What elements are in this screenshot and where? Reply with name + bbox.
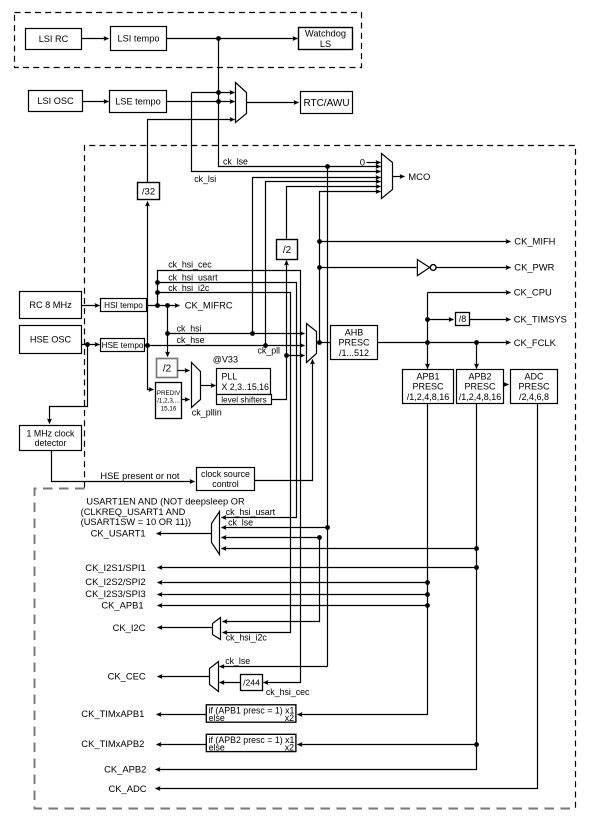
dashed frame: lower peripheral clock group (gray part) [35, 489, 576, 809]
svg-text:CK_TIMSYS: CK_TIMSYS [514, 313, 567, 324]
wire ADC down trunk [156, 404, 538, 789]
wire RC to HSI tempo [82, 305, 100, 307]
wire APB2 down trunk [156, 404, 477, 770]
svg-text:HSE OSC: HSE OSC [30, 335, 72, 345]
svg-text:/2: /2 [283, 245, 292, 256]
wire CK_MIFH [320, 241, 511, 243]
wire buffer to CK_PWR [437, 267, 511, 269]
svg-text:(CLKREQ_USART1 AND: (CLKREQ_USART1 AND [81, 507, 186, 517]
dashed frame: LSI watchdog group [15, 13, 362, 68]
block LSI tempo [111, 27, 167, 51]
junction hclk to /8 [425, 317, 430, 322]
svg-text:LSI RC: LSI RC [39, 34, 69, 44]
wire RTC mux input 1 (ck_lsi) [192, 92, 235, 94]
block RTC/AWU [301, 92, 353, 114]
svg-text:ck_hsi_usart: ck_hsi_usart [168, 273, 218, 283]
svg-text:RTC/AWU: RTC/AWU [303, 98, 349, 109]
mux system clock select [307, 324, 317, 363]
wire ck_lse to CEC mux [220, 666, 328, 668]
block LSI OSC [29, 91, 83, 112]
wire AHB out to CK_FCLK [378, 342, 511, 344]
svg-text:CK_CPU: CK_CPU [514, 287, 552, 298]
wire LSE tempo to RTC mux [167, 101, 235, 103]
svg-text:control: control [212, 479, 238, 489]
block PLL [217, 369, 271, 395]
block TIMxAPB2 multiplier [206, 734, 296, 752]
buffer/inverter CK_PWR [417, 260, 436, 276]
junction hsi MCO branch [250, 331, 255, 336]
svg-text:detector: detector [35, 438, 67, 448]
svg-text:PRESC: PRESC [464, 382, 496, 392]
svg-text:CK_I2S3/SPI3: CK_I2S3/SPI3 [85, 588, 145, 599]
block APB2 prescaler [457, 370, 504, 404]
junction hsi up branch [155, 303, 160, 308]
junction ck_lse at usart [325, 525, 330, 530]
junction ck_lse to lower muxes [325, 164, 330, 169]
svg-text:CK_FCLK: CK_FCLK [514, 337, 557, 348]
svg-text:CK_I2S1/SPI1: CK_I2S1/SPI1 [85, 562, 145, 573]
dashed frame: main clock block (black part) [85, 146, 576, 809]
wire select from clock source control [255, 360, 313, 481]
wire PLL mux to PLL [201, 385, 216, 387]
junction sysclk at AHB line [317, 340, 322, 345]
block /244 divider [241, 675, 263, 691]
block HSE OSC [20, 326, 82, 354]
junction apb1 to I2S3 [425, 592, 430, 597]
junction hse MCO branch [263, 343, 268, 348]
svg-text:CK_TIMxAPB1: CK_TIMxAPB1 [81, 708, 144, 719]
svg-text:LSI tempo: LSI tempo [118, 34, 160, 44]
junction AHB out to APB2 [474, 340, 479, 345]
junction apb2 to I2S1 [474, 565, 479, 570]
svg-text:MCO: MCO [408, 172, 430, 183]
wire CK_CEC out [158, 676, 210, 678]
wire ck_lsi vertical drop [219, 39, 381, 167]
wire CK_TIMxAPB2 out [157, 744, 207, 746]
svg-text:/1,2,3,...: /1,2,3,... [157, 398, 180, 405]
wire ck_hsi_usart from HSI [158, 283, 297, 518]
wire sysclk down to I2C mux [223, 538, 320, 622]
wire hsi to MCO [253, 178, 381, 334]
wire MCO mux output [393, 176, 405, 178]
block clock source control [197, 468, 255, 491]
block /32 divider [138, 183, 160, 200]
wire CK_I2S2/SPI2 [158, 582, 428, 584]
svg-text:@V33: @V33 [213, 354, 238, 364]
wire LSI tempo to Watchdog LS [167, 38, 298, 40]
svg-text:PREDIV: PREDIV [157, 390, 181, 397]
wire sysclk mux to AHB presc [317, 342, 331, 344]
svg-text:/244: /244 [243, 678, 260, 688]
svg-text:/32: /32 [142, 186, 155, 197]
svg-text:CK_MIFRC: CK_MIFRC [185, 299, 233, 310]
wire CK_APB1 [158, 605, 428, 607]
wire PREDIV to PLL mux [182, 399, 190, 401]
block HSE tempo [101, 339, 145, 352]
wire ck_hse row [145, 345, 305, 347]
svg-text:/1...512: /1...512 [339, 348, 369, 358]
svg-text:PLL: PLL [222, 371, 238, 381]
block /8 divider [456, 313, 470, 326]
junction apb1 to CK_APB1 [425, 603, 430, 608]
wire LSI RC to LSI tempo [82, 38, 109, 40]
block 1 MHz clock detector [20, 426, 82, 451]
wire hsi down to /2 [167, 306, 169, 357]
svg-text:CK_MIFH: CK_MIFH [514, 236, 555, 247]
wire APB2 to ADC presc [504, 384, 509, 386]
junction hsi to i2c branch [155, 290, 160, 295]
svg-text:PRESC: PRESC [412, 382, 444, 392]
wire HSE to 1MHz detector [50, 345, 88, 424]
junction hse to /32 and PREDIV [145, 343, 150, 348]
svg-text:LSE tempo: LSE tempo [115, 97, 160, 107]
wire CK_I2S3/SPI3 [158, 594, 428, 596]
svg-text:(USART1SW = 10 OR 11)): (USART1SW = 10 OR 11)) [81, 517, 191, 527]
wire ck_hsi_cec from HSI [158, 271, 301, 683]
svg-text:0: 0 [360, 157, 365, 168]
wire ck_pll up into /2 [286, 261, 288, 356]
block HSI tempo [101, 299, 147, 312]
wire RTC mux to RTC/AWU [247, 102, 299, 104]
svg-text:ck_pllin: ck_pllin [192, 407, 222, 417]
wire APB1 down trunk [298, 404, 428, 715]
wire HSI tempo out CK_MIFRC [147, 305, 180, 307]
wire CK_TIMxAPB1 out [157, 714, 207, 716]
wire to CK_PWR buffer [320, 267, 417, 269]
block RC 8 MHz [20, 292, 82, 319]
junction hsi to usart branch [155, 280, 160, 285]
svg-text:else: else [209, 713, 225, 723]
block LSI RC [26, 29, 82, 50]
junction ck_hsi from HSI branch [165, 331, 170, 336]
svg-text:ck_hsi_cec: ck_hsi_cec [266, 687, 310, 697]
svg-text:HSI tempo: HSI tempo [104, 301, 143, 310]
junction sysclk at usart [317, 535, 322, 540]
wire sysclk to MCO [320, 192, 381, 343]
wire TIMxAPB2 input [298, 744, 477, 746]
svg-text:APB1: APB1 [416, 371, 439, 381]
svg-text:CK_TIMxAPB2: CK_TIMxAPB2 [81, 738, 144, 749]
svg-text:ck_lse: ck_lse [228, 517, 253, 527]
svg-text:/1,2,4,8,16: /1,2,4,8,16 [459, 392, 502, 402]
junction apb1 to I2S2 [425, 580, 430, 585]
wire hclk up to CPU corner [427, 293, 429, 343]
wire ck_hsi_i2c from HSI [158, 293, 291, 633]
block LSE tempo [110, 91, 167, 113]
wire hclk down to APB2 presc [476, 343, 478, 369]
wire ck_hsi row [168, 333, 305, 335]
svg-text:APB2: APB2 [468, 371, 491, 381]
svg-text:ck_lse: ck_lse [223, 156, 248, 166]
wire ck_lse drop to USART/CEC muxes [327, 167, 329, 667]
svg-text:/2,4,6,8: /2,4,6,8 [519, 392, 549, 402]
svg-text:x2: x2 [285, 713, 294, 723]
wire /244 to CEC mux [220, 682, 241, 684]
wire CK_I2C out [158, 627, 213, 629]
mux MCO select [382, 154, 393, 199]
svg-text:CK_I2S2/SPI2: CK_I2S2/SPI2 [85, 576, 145, 587]
svg-text:CK_PWR: CK_PWR [514, 262, 554, 273]
svg-text:level shifters: level shifters [221, 395, 267, 404]
svg-text:CK_APB1: CK_APB1 [101, 600, 143, 611]
block PREDIV divider [156, 383, 182, 419]
wire 0 to MCO mux [367, 162, 381, 164]
svg-text:/1,2,4,8,16: /1,2,4,8,16 [407, 392, 450, 402]
junction ck_lse at RTC mux input [216, 99, 221, 104]
wire /2 to PLL mux [178, 370, 190, 372]
svg-text:Watchdog: Watchdog [305, 28, 346, 38]
junction apb2 pclk at usart [474, 546, 479, 551]
svg-text:LSI OSC: LSI OSC [37, 96, 74, 106]
wire hse/32 to RTC mux input 3 [148, 120, 235, 183]
wire LSI OSC to LSE tempo [83, 101, 109, 103]
wire pll/2 to MCO [287, 187, 381, 239]
mux USART1 clock select [212, 512, 220, 555]
junction apb2 to TIMxAPB2 [474, 742, 479, 747]
svg-text:ck_hsi_usart: ck_hsi_usart [226, 507, 276, 517]
junction ck_pll at /2 branch [284, 353, 289, 358]
mux I2C clock select [213, 618, 221, 640]
svg-text:CK_USART1: CK_USART1 [91, 528, 146, 539]
svg-text:15,16: 15,16 [161, 406, 177, 413]
svg-text:AHB: AHB [345, 327, 364, 337]
block AHB prescaler [331, 326, 378, 360]
svg-text:ck_lse: ck_lse [225, 656, 250, 666]
svg-text:LS: LS [320, 39, 331, 49]
svg-text:ck_pll: ck_pll [258, 345, 281, 355]
wire hclk down to APB1 presc [427, 343, 429, 369]
junction LSI tempo output [216, 36, 221, 41]
svg-text:ck_hsi_cec: ck_hsi_cec [168, 260, 212, 270]
svg-text:USART1EN AND (NOT deepsleep OR: USART1EN AND (NOT deepsleep OR [86, 496, 245, 506]
wire hse up into /32 [147, 202, 149, 346]
junction ck_lsi at RTC mux input [216, 90, 221, 95]
wire HSE OSC to HSE tempo [82, 344, 100, 346]
wire hse to MCO [266, 182, 381, 346]
junction HSE to detector branch [85, 342, 90, 347]
block APB1 prescaler [403, 370, 454, 404]
svg-text:ck_lsi: ck_lsi [194, 174, 216, 184]
svg-text:clock source: clock source [201, 469, 250, 479]
svg-text:ck_hsi: ck_hsi [177, 323, 202, 333]
svg-text:CK_CEC: CK_CEC [108, 671, 146, 682]
svg-text:/8: /8 [459, 314, 467, 324]
junction sysclk to CK_PWR [317, 265, 322, 270]
wire HSE present to control [52, 451, 195, 482]
block level shifters [217, 395, 272, 405]
wire hse down to PREDIV [148, 346, 154, 390]
wire ck_lse to USART mux [222, 527, 328, 529]
svg-text:1 MHz clock: 1 MHz clock [27, 428, 76, 438]
block /2 divider (PLL to MCO) [277, 240, 298, 260]
junction hsi down branch [165, 303, 170, 308]
svg-text:HSE tempo: HSE tempo [102, 341, 144, 350]
mux PLL source select [192, 363, 201, 408]
svg-text:RC 8 MHz: RC 8 MHz [29, 300, 72, 310]
junction AHB out to APB1 [425, 340, 430, 345]
wire CK_I2S1/SPI1 [158, 567, 477, 569]
svg-text:ck_hsi_i2c: ck_hsi_i2c [226, 633, 268, 643]
mux RTC clock select [236, 83, 247, 123]
svg-text:ck_hsi_i2c: ck_hsi_i2c [168, 283, 210, 293]
svg-text:HSE present or not: HSE present or not [100, 471, 179, 481]
block TIMxAPB1 multiplier [206, 705, 296, 723]
wire ck_pll row [287, 355, 305, 357]
wire sysclk to USART mux [222, 537, 320, 539]
svg-text:/2: /2 [163, 364, 172, 375]
svg-text:CK_APB2: CK_APB2 [104, 764, 146, 775]
svg-text:x2: x2 [285, 742, 294, 752]
wire PLL output ck_pll [272, 356, 287, 400]
svg-text:ck_hse: ck_hse [177, 335, 205, 345]
svg-text:PRESC: PRESC [338, 338, 370, 348]
wire /8 out CK_TIMSYS [470, 319, 511, 321]
svg-text:else: else [209, 742, 225, 752]
wire CK_CPU [428, 292, 511, 294]
wire CK_USART1 out [157, 533, 212, 535]
block /2 divider (HSI to PLL) [157, 359, 178, 378]
svg-text:CK_ADC: CK_ADC [109, 783, 147, 794]
block ADC prescaler [511, 370, 558, 404]
wire pclk to USART mux [222, 548, 477, 550]
wire /8 input [428, 319, 454, 321]
mux CEC clock select [210, 662, 219, 692]
junction sysclk to CK_MIFH [317, 239, 322, 244]
svg-text:PRESC: PRESC [518, 382, 550, 392]
wire ck_lsi branch down to MCO [192, 93, 381, 172]
block Watchdog LS [299, 28, 353, 50]
svg-text:CK_I2C: CK_I2C [113, 622, 146, 633]
svg-text:ADC: ADC [524, 371, 544, 381]
svg-text:X 2,3..15,16: X 2,3..15,16 [222, 382, 270, 392]
